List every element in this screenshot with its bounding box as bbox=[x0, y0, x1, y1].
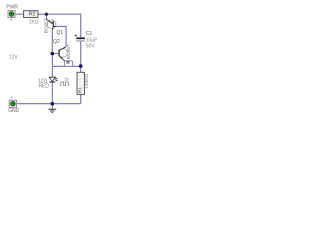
node D junction dot (LED/ground) bbox=[51, 102, 55, 106]
node B junction dot bbox=[51, 52, 55, 56]
svg-text:R2: R2 bbox=[29, 11, 36, 17]
svg-text:12V: 12V bbox=[9, 55, 19, 61]
label LD1 RED bbox=[39, 79, 48, 85]
label C1 with values 10uF 50V bbox=[86, 31, 93, 37]
label Q1 bbox=[56, 30, 63, 36]
wire ground bottom rail bbox=[17, 103, 81, 105]
capacitor C1 (electrolytic, polarized) bbox=[76, 37, 85, 39]
svg-text:GND: GND bbox=[8, 108, 19, 114]
wire +12V top rail from R2 to corner and down to C1 top bbox=[38, 14, 81, 38]
svg-text:Q1: Q1 bbox=[56, 30, 63, 36]
label R1 (rotated) bbox=[78, 87, 84, 93]
value label BC557 for Q2 (rotated) bbox=[66, 44, 72, 59]
wire node B to Q2 base bbox=[52, 53, 59, 55]
node C junction dot bbox=[79, 64, 83, 68]
wire PWR pin to R2 left lead bbox=[15, 13, 24, 15]
pin mark above GND bbox=[11, 97, 13, 99]
wire C1 bottom lead through node C to R1 top bbox=[80, 41, 82, 72]
value label 100K ohm (rotated) bbox=[84, 74, 90, 89]
LED LD1 bbox=[49, 77, 55, 81]
wire node B down to LED anode bbox=[51, 54, 53, 78]
transistor Q1 (PNP BC557, base right) bbox=[47, 20, 56, 29]
svg-text:C1: C1 bbox=[86, 31, 93, 37]
wire ground symbol stem bbox=[51, 104, 53, 109]
background bbox=[0, 0, 101, 120]
wire hop / tag box on node B to node C wire bbox=[64, 61, 72, 67]
label GND bbox=[8, 108, 19, 114]
wire Q1 collector to node B bbox=[51, 30, 53, 53]
wire node B branch to node C bbox=[52, 65, 80, 67]
svg-text:BC557: BC557 bbox=[66, 44, 72, 59]
resistor R2 body bbox=[24, 11, 39, 18]
svg-text:50V: 50V bbox=[86, 44, 95, 50]
Q2 emitter arrow bbox=[60, 56, 63, 58]
resistor R1 body bbox=[77, 72, 85, 94]
connector pin PWR (green pin) bbox=[8, 11, 15, 18]
value label BC557 for Q1 (rotated) bbox=[44, 18, 50, 33]
transistor Q2 (PNP BC557, base left) bbox=[59, 49, 68, 58]
value label 1K ohm bbox=[29, 19, 39, 25]
annotation 2s square-wave icon bbox=[64, 76, 68, 81]
svg-text:10µF: 10µF bbox=[86, 37, 97, 43]
svg-text:R1: R1 bbox=[78, 87, 84, 93]
node A junction dot bbox=[45, 13, 48, 16]
ground symbol bbox=[48, 108, 56, 110]
wire node A to Q1 emitter bbox=[45, 14, 47, 19]
svg-text:100KΩ: 100KΩ bbox=[84, 74, 90, 89]
label R2 bbox=[29, 11, 36, 17]
label 12V supply bbox=[9, 55, 19, 61]
svg-text:RED: RED bbox=[39, 83, 50, 89]
label PWR bbox=[6, 5, 18, 11]
wire Q1 base to Q2 emitter bbox=[56, 26, 67, 46]
svg-text:2s: 2s bbox=[64, 76, 68, 81]
svg-text:PWR: PWR bbox=[6, 5, 18, 11]
svg-text:BC557: BC557 bbox=[44, 18, 50, 33]
svg-text:Q2: Q2 bbox=[53, 39, 60, 45]
wire R1 bottom lead bbox=[80, 94, 82, 103]
pin mark below PWR bbox=[10, 19, 12, 21]
connector pin GND (green pin) bbox=[9, 100, 16, 107]
svg-text:1KΩ: 1KΩ bbox=[29, 19, 39, 25]
label Q2 bbox=[53, 39, 60, 45]
wire LED cathode to bottom rail bbox=[51, 82, 53, 104]
